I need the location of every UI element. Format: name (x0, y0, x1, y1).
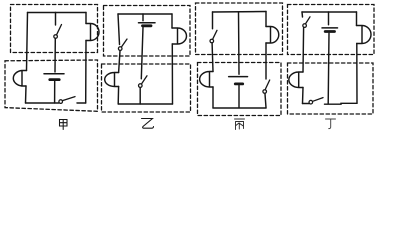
bell B4 (乙 bottom-left) (105, 73, 119, 87)
bell B1 (甲 top-right) (86, 24, 99, 41)
wire: top rail 甲 (28, 12, 87, 14)
wire: top rail 丙 (213, 11, 267, 14)
wire: middle branch 甲 (mid) (54, 39, 56, 72)
wire: bottom rail 甲 (right of switch) (77, 102, 86, 104)
bell B7 (丁 top-right) (357, 26, 372, 44)
bell B5 (丙 top-right) (266, 27, 279, 44)
wire: left branch 乙 (upper) (118, 14, 120, 45)
dashed room box (top, 乙) (104, 6, 191, 57)
dashed room box (top, 丁) (288, 5, 375, 55)
switch S3 (乙 left branch) (118, 39, 127, 50)
wire: middle branch 丙 (lower) (238, 86, 240, 108)
dashed room box (bottom, 乙) (102, 64, 191, 112)
wire: middle branch 乙 (mid) (141, 27, 143, 79)
battery G2 (乙) (139, 23, 156, 26)
wire: bottom rail 甲 (left of switch) (26, 102, 59, 104)
wire: middle branch 丁 (upper) (328, 12, 330, 25)
dashed room box (bottom, 甲) (5, 60, 98, 111)
wire: left branch 丁 (lower) (302, 88, 305, 104)
wire: left branch 乙 (lower) (117, 87, 119, 105)
label 丙 (235, 119, 245, 130)
switch S6 (丙 right branch) (263, 80, 270, 93)
label 甲 (60, 120, 68, 130)
bell B3 (乙 top-right) (172, 28, 187, 44)
wire: right branch 甲 (85, 13, 87, 104)
wire: right branch 丁 (356, 12, 359, 103)
wire: left branch 丁 (mid) (302, 28, 305, 72)
switch S8 (丁 bottom rail) (309, 98, 323, 104)
wire: top rail 丁 (302, 11, 357, 13)
dashed room box (bottom, 丙) (198, 63, 282, 116)
battery G1 (甲) (44, 74, 64, 80)
wire: left branch 丙 (mid) (211, 43, 214, 71)
wire: middle branch 乙 (upper) (142, 14, 144, 21)
wire: bottom rail 乙 (118, 103, 172, 105)
switch S7 (丁 left branch) (303, 17, 310, 28)
battery G3 (丙) (229, 77, 248, 84)
wire: bottom rail 丁 (left of switch) (303, 103, 310, 105)
wire: middle branch 乙 (lower) (139, 88, 141, 104)
dashed room box (top, 丙) (196, 3, 283, 55)
wire: right branch 丙 (lower) (265, 94, 266, 108)
switch S1 (甲 middle branch) (54, 25, 62, 39)
wire: left branch 丙 (upper) (212, 12, 214, 29)
wire: left branch 乙 (mid) (119, 51, 120, 73)
wire: left branch 丁 (upper) (301, 12, 304, 17)
wire: left branch 甲 (26, 13, 28, 104)
wire: bottom rail 丁 (right of switch) (325, 102, 358, 105)
label 乙 (142, 119, 154, 129)
bell B6 (丙 bottom-left) (200, 72, 213, 88)
wire: middle branch 甲 (lower) (54, 81, 56, 103)
battery G4 (丁) (322, 28, 338, 32)
switch S4 (乙 middle branch) (139, 76, 148, 88)
wire: middle branch 丙 (upper) (238, 12, 241, 75)
wire: bottom rail 丙 (213, 107, 266, 109)
wire: middle branch 甲 (upper) (55, 13, 57, 26)
wire: right branch 丙 (upper) (265, 12, 267, 80)
wire: top rail 乙 (118, 13, 172, 15)
dashed room box (top, 甲) (11, 5, 98, 53)
dashed room box (bottom, 丁) (288, 63, 374, 114)
bell B2 (甲 bottom-left) (13, 71, 26, 87)
label 丁 (326, 119, 336, 129)
bell B8 (丁 bottom-left) (289, 72, 303, 88)
switch S2 (甲 bottom rail) (59, 97, 75, 104)
wire: left branch 丙 (lower) (212, 87, 214, 108)
switch S5 (丙 left branch) (210, 30, 217, 43)
wire: right branch 乙 (171, 14, 174, 104)
wire: middle branch 丁 (lower) (327, 33, 330, 103)
